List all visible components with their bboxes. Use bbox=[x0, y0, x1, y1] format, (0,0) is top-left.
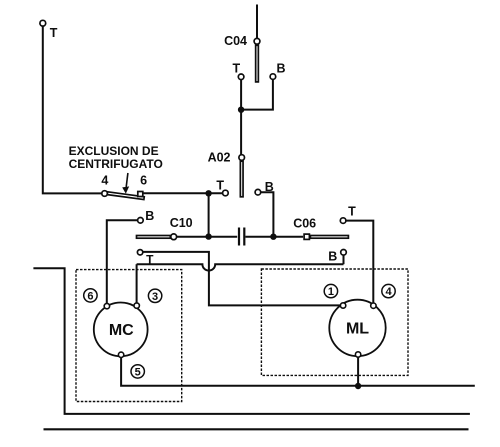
svg-text:4: 4 bbox=[101, 174, 108, 188]
wire from T top-left down and right to contact 4 bbox=[43, 26, 102, 193]
connector C04 terminal circle bbox=[254, 38, 260, 44]
svg-text:B: B bbox=[145, 209, 154, 223]
terminal B (4-6 switch row) bbox=[138, 218, 144, 224]
junction on capacitor wire right bbox=[270, 234, 276, 240]
wire bottom supply line bbox=[44, 428, 469, 430]
pin 5 circled label bbox=[131, 365, 144, 378]
svg-text:6: 6 bbox=[140, 174, 147, 188]
connector C06 terminal circle bbox=[304, 234, 309, 239]
svg-text:A02: A02 bbox=[208, 151, 231, 165]
terminal T top-left bbox=[40, 20, 46, 26]
dashed enclosure box ML bbox=[261, 269, 408, 375]
svg-text:6: 6 bbox=[87, 290, 93, 302]
pin 1 circled label bbox=[324, 284, 337, 297]
wire B(A02) right and down to capacitor node bbox=[261, 192, 274, 237]
svg-text:3: 3 bbox=[152, 291, 158, 303]
motor ML terminal (pin 4) bbox=[371, 303, 376, 308]
motor MC terminal (pin 5) bbox=[118, 352, 123, 357]
wire MC pin 5 down and right (common line) bbox=[121, 358, 475, 386]
switch blade 4-6 (centrifugal exclusion switch) bbox=[107, 192, 144, 200]
wire B(4-6) left and down to motor MC terminal 6 bbox=[107, 220, 138, 303]
pin 6 circled label bbox=[84, 289, 97, 302]
pin 4 circled label bbox=[382, 284, 395, 297]
terminal B (A02 row) bbox=[255, 189, 261, 195]
pin 3 circled label bbox=[148, 289, 161, 302]
capacitor plates bbox=[238, 228, 240, 246]
connector C10 blade bbox=[137, 236, 171, 239]
svg-text:C06: C06 bbox=[293, 217, 316, 231]
wire down to MC terminal 3 bbox=[136, 264, 138, 303]
connector A02 terminal circle bbox=[239, 155, 245, 161]
wire capacitor right to C06 bbox=[246, 236, 304, 238]
motor MC terminal (pin 3) bbox=[134, 303, 139, 308]
terminal T (MC row) bbox=[137, 250, 142, 255]
wire C10 to capacitor bbox=[177, 236, 238, 238]
wire top feed down to C04 bbox=[256, 5, 258, 39]
motor ML terminal (pin 1) bbox=[340, 303, 345, 308]
svg-text:T: T bbox=[50, 26, 58, 40]
arrow pointing to switch blade bbox=[122, 173, 129, 194]
svg-text:ML: ML bbox=[346, 320, 369, 337]
wire T(MC) right, down, right to ML terminal 1 bbox=[143, 252, 340, 306]
connector A02 blade bbox=[240, 161, 243, 197]
junction on 4-6 wire bbox=[205, 190, 211, 196]
wire outer loop left and bottom bbox=[33, 268, 470, 414]
svg-text:T: T bbox=[232, 62, 240, 76]
svg-text:CENTRIFUGATO: CENTRIFUGATO bbox=[69, 157, 163, 171]
wire ML bottom down to common line bbox=[357, 357, 359, 386]
svg-text:T: T bbox=[146, 253, 154, 267]
motor MC terminal (pin 6) bbox=[104, 303, 109, 308]
connector C04 blade bbox=[256, 45, 259, 82]
motor ML body bbox=[329, 300, 385, 356]
wire B(C04) down and left to junction bbox=[243, 79, 273, 109]
svg-text:5: 5 bbox=[135, 366, 141, 378]
svg-text:4: 4 bbox=[385, 286, 392, 298]
terminal T (C04 row) bbox=[238, 74, 244, 80]
svg-text:C10: C10 bbox=[170, 216, 193, 230]
svg-text:B: B bbox=[328, 250, 337, 264]
svg-text:MC: MC bbox=[109, 322, 134, 339]
wire B(ML) down to cross wire bbox=[343, 255, 345, 264]
svg-text:T: T bbox=[216, 178, 224, 192]
switch contact 6 bbox=[138, 192, 143, 197]
connector C06 blade bbox=[310, 236, 348, 239]
dashed enclosure box MC bbox=[76, 270, 182, 402]
motor MC body bbox=[94, 303, 148, 357]
wire T(C06) right and down to motor ML terminal 4 bbox=[346, 221, 373, 304]
svg-text:T: T bbox=[348, 204, 356, 218]
terminal B (ML row) bbox=[341, 250, 347, 256]
junction on capacitor wire left bbox=[205, 233, 211, 239]
terminal B (C04 row) bbox=[270, 74, 276, 80]
svg-text:1: 1 bbox=[328, 286, 334, 298]
motor ML terminal (bottom) bbox=[355, 352, 360, 357]
junction on common line bbox=[355, 383, 361, 389]
wire MC terminal 3 to B(ML) with hop over vertical bbox=[137, 264, 344, 270]
terminal T (A02 row) bbox=[223, 190, 229, 196]
wire T(C04) down bbox=[240, 80, 242, 110]
junction below C04 bbox=[238, 107, 244, 113]
switch contact 4 bbox=[102, 191, 108, 197]
svg-text:C04: C04 bbox=[224, 34, 247, 48]
svg-text:B: B bbox=[276, 62, 285, 76]
wire junction down to A02 bbox=[240, 110, 242, 155]
connector C10 terminal circle bbox=[171, 234, 177, 240]
wire junction down to capacitor node bbox=[208, 193, 210, 236]
terminal T (C06 row) bbox=[340, 218, 346, 224]
wire contact 6 to terminal T bbox=[143, 192, 222, 194]
